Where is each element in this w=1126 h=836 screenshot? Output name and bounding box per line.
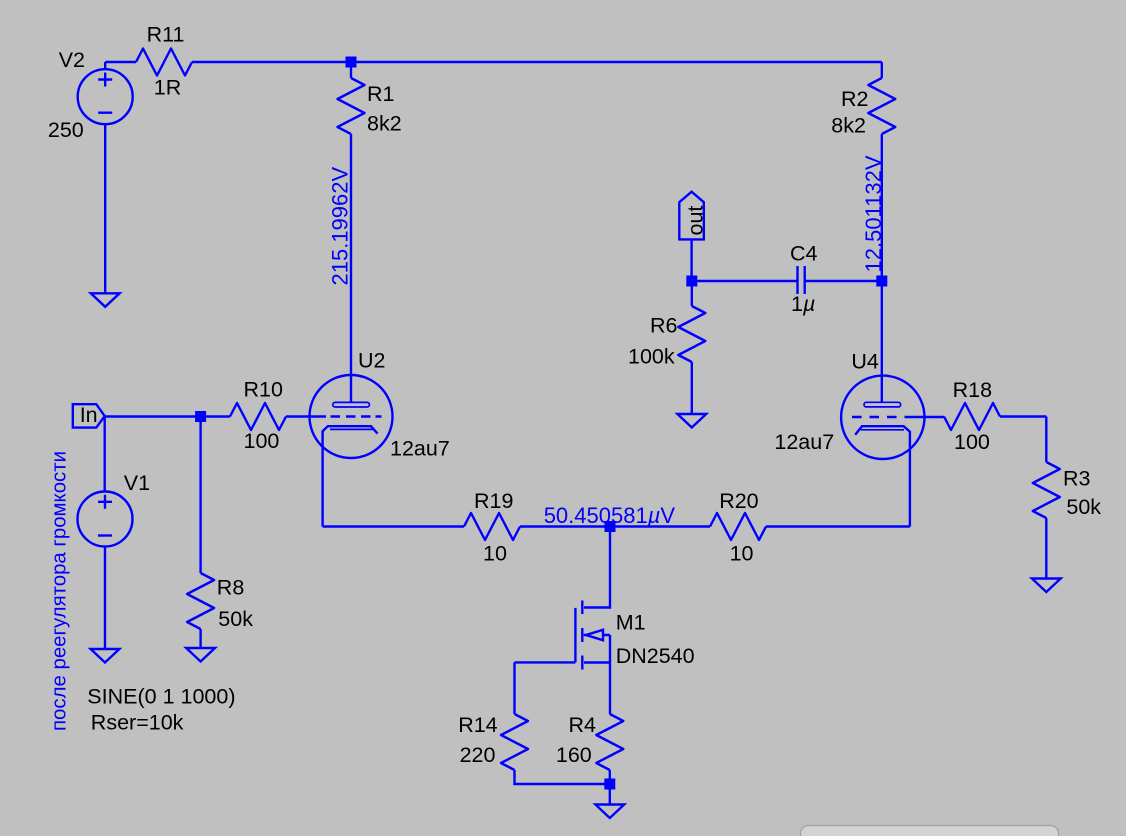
In port flag — [73, 404, 105, 427]
svg-text:R3: R3 — [1063, 467, 1091, 491]
svg-text:Rser=10k: Rser=10k — [91, 711, 184, 735]
tooltip box bottom right — [801, 826, 1059, 836]
ground of V1 — [91, 649, 120, 663]
svg-text:R11: R11 — [147, 23, 185, 47]
svg-text:R10: R10 — [244, 378, 283, 402]
U4 grid dashes — [852, 416, 897, 418]
wire junction to R20 — [610, 525, 710, 527]
resistor R3 — [1033, 462, 1060, 518]
resistor R6 — [691, 281, 693, 306]
U2 cathode — [323, 426, 378, 433]
node junction bottom — [604, 779, 615, 790]
U4 grid lead — [905, 416, 945, 418]
svg-text:M1: M1 — [616, 611, 646, 635]
wire R19 to junction — [520, 525, 610, 527]
svg-text:In: In — [80, 403, 98, 427]
ground bottom — [595, 805, 624, 819]
wire out flag down — [690, 239, 692, 281]
node junction top rail at R1 — [346, 57, 357, 68]
node junction out — [686, 276, 697, 287]
svg-text:out: out — [684, 206, 708, 236]
wire top rail right — [192, 61, 882, 63]
svg-text:DN2540: DN2540 — [616, 644, 695, 668]
voltage source V2 — [78, 69, 133, 124]
node junction center — [605, 521, 616, 532]
resistor R18 — [944, 403, 1000, 430]
svg-text:R1: R1 — [367, 82, 394, 106]
svg-text:160: 160 — [556, 743, 592, 767]
svg-text:100: 100 — [244, 429, 280, 453]
svg-text:после реегулятора громкости: после реегулятора громкости — [49, 451, 71, 731]
svg-text:10: 10 — [730, 542, 754, 566]
node junction at R8 — [195, 411, 206, 422]
node junction at R2 net — [876, 276, 887, 287]
resistor R19 — [464, 513, 520, 540]
U4 cathode — [855, 426, 910, 435]
svg-text:R4: R4 — [569, 713, 597, 737]
svg-text:V2: V2 — [59, 48, 85, 72]
mosfet M1 body arrow — [586, 630, 603, 640]
out port flag — [679, 192, 704, 240]
svg-text:U2: U2 — [358, 349, 385, 373]
svg-text:8k2: 8k2 — [831, 114, 866, 138]
mosfet M1 body and source stubs — [584, 635, 610, 663]
resistor R10 — [230, 403, 286, 430]
resistor R4 — [596, 714, 623, 770]
svg-text:U4: U4 — [851, 350, 879, 374]
svg-text:C4: C4 — [790, 242, 818, 266]
resistor R1 — [350, 62, 352, 78]
wire C4 to R2 net — [805, 280, 882, 282]
ground of V2 — [91, 293, 120, 307]
ground of R3 — [1032, 579, 1061, 593]
svg-text:12au7: 12au7 — [390, 437, 450, 461]
svg-text:100k: 100k — [628, 345, 675, 369]
wire R1 to U2 anode — [350, 134, 352, 402]
wire out to C4 — [692, 280, 798, 282]
mosfet M1 gate bar — [574, 608, 576, 662]
svg-text:1µ: 1µ — [791, 292, 815, 316]
wire R2 to U4 anode — [881, 134, 883, 402]
triode U4 — [841, 376, 924, 459]
svg-text:250: 250 — [48, 118, 84, 142]
svg-text:8k2: 8k2 — [367, 112, 402, 136]
wire R20 to U4 cathode — [766, 525, 910, 527]
svg-text:SINE(0 1 1000): SINE(0 1 1000) — [87, 685, 235, 709]
resistor R11 — [136, 49, 192, 76]
wire R18 to R3 — [1000, 417, 1046, 463]
svg-text:R8: R8 — [217, 576, 245, 600]
svg-text:R6: R6 — [650, 314, 678, 338]
voltage source V1 — [103, 417, 105, 492]
wire R10 to U2 grid — [286, 415, 326, 417]
svg-text:R2: R2 — [841, 87, 868, 111]
svg-text:10: 10 — [483, 542, 507, 566]
wire U2 cathode down — [321, 431, 323, 527]
svg-text:220: 220 — [460, 743, 496, 767]
mosfet M1 channel bars — [581, 601, 583, 670]
svg-text:1R: 1R — [154, 76, 181, 100]
ground of R6 — [677, 414, 706, 428]
U2 plate — [333, 402, 370, 407]
capacitor C4 — [798, 266, 805, 294]
svg-text:R19: R19 — [474, 489, 513, 513]
triode U2 — [310, 375, 393, 458]
svg-text:R20: R20 — [719, 489, 758, 513]
svg-text:R18: R18 — [953, 378, 992, 402]
svg-text:12.501132V: 12.501132V — [861, 155, 886, 272]
resistor R14 — [501, 714, 528, 770]
resistor R8 — [199, 417, 201, 574]
wire M1 source down to R4 — [609, 635, 611, 714]
wire junction to M1 drain — [584, 527, 610, 608]
svg-text:215.19962V: 215.19962V — [328, 167, 353, 286]
svg-text:V1: V1 — [124, 471, 150, 495]
wire M1 gate to R14 — [515, 662, 576, 714]
U2 grid dashes — [331, 415, 382, 417]
svg-text:100: 100 — [954, 430, 990, 454]
ground of R8 — [186, 648, 215, 662]
svg-text:12au7: 12au7 — [774, 430, 834, 454]
wire bottom rail — [515, 770, 610, 805]
svg-text:50k: 50k — [218, 607, 253, 631]
U4 plate — [864, 402, 901, 407]
svg-text:R14: R14 — [458, 713, 497, 737]
svg-text:50k: 50k — [1066, 495, 1101, 519]
wire top rail left — [105, 61, 136, 63]
resistor R2 — [881, 62, 883, 78]
resistor R20 — [710, 513, 766, 540]
wire cathode rail to R19 — [323, 525, 464, 527]
wire In to R10 — [105, 415, 230, 417]
